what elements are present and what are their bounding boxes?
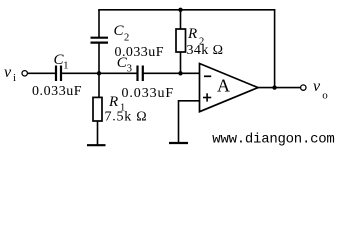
op-amp minus sign — [204, 75, 211, 77]
svg-text:1: 1 — [63, 60, 68, 71]
label R2 — [187, 26, 204, 48]
ground (non-inverting input) — [169, 142, 188, 144]
svg-text:o: o — [322, 90, 328, 102]
wire: vi to C1 — [28, 72, 56, 74]
wire: top feedback rail — [98, 9, 275, 11]
wire: node A down to R1 — [98, 73, 100, 97]
svg-text:R: R — [108, 94, 118, 110]
wire: R1 to ground — [97, 121, 99, 145]
wire: C2 bottom plate to node A — [98, 43, 100, 74]
label C3 — [117, 55, 132, 75]
wire: top rail down to output node — [274, 10, 276, 88]
junction: output node — [272, 85, 276, 89]
wire: op-amp output to vo — [258, 87, 300, 89]
wire: R2 to node B — [180, 52, 182, 73]
label vo — [313, 78, 328, 102]
label vi — [4, 64, 16, 84]
label C1 — [54, 52, 69, 71]
svg-text:0.033uF: 0.033uF — [122, 86, 175, 101]
label C2 — [114, 23, 130, 44]
terminal vo — [301, 85, 306, 90]
svg-text:3: 3 — [127, 64, 132, 75]
svg-text:0.033uF: 0.033uF — [32, 84, 82, 99]
wire: C3 to node B — [143, 72, 181, 74]
label R1 — [108, 94, 125, 114]
svg-text:34k Ω: 34k Ω — [187, 43, 224, 58]
svg-text:R: R — [187, 26, 197, 42]
wire: top rail down to R2 — [180, 10, 182, 29]
svg-text:v: v — [313, 78, 321, 95]
wire: node A to C3 — [99, 72, 138, 74]
capacitor C2 — [91, 38, 109, 43]
resistor R2 — [176, 29, 186, 52]
terminal vi — [22, 71, 27, 76]
wire: non-inverting input to ground — [179, 101, 200, 143]
resistor R1 — [93, 97, 102, 121]
svg-text:2: 2 — [124, 33, 129, 44]
op-amp A body — [200, 64, 259, 112]
ground (R1) — [87, 144, 106, 146]
svg-text:i: i — [13, 72, 16, 84]
svg-text:www.diangon.com: www.diangon.com — [212, 132, 334, 148]
wire: node B to op-amp inverting input — [181, 72, 200, 74]
svg-text:v: v — [4, 64, 12, 81]
wire: C1 to node A — [61, 72, 99, 74]
capacitor C3 — [138, 66, 143, 82]
svg-text:C: C — [114, 23, 125, 39]
junction: R2 top on feedback rail — [178, 8, 182, 12]
op-amp plus sign — [203, 93, 211, 101]
node B junction — [178, 71, 182, 75]
wire: C2 top plate to top rail — [98, 10, 100, 38]
node A junction — [97, 71, 101, 75]
svg-text:7.5k Ω: 7.5k Ω — [105, 110, 148, 125]
capacitor C1 — [56, 66, 61, 82]
svg-text:A: A — [217, 76, 230, 96]
